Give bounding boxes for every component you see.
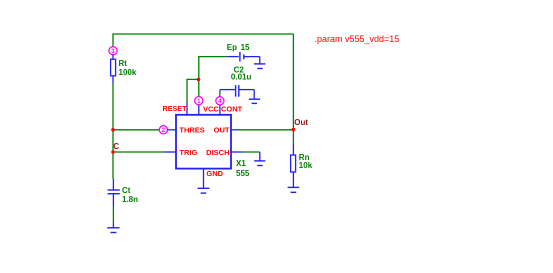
label C2 value (231, 66, 252, 82)
svg-text:Ep: Ep (227, 43, 237, 52)
ground for DISCH (254, 152, 265, 166)
junction at THRES/left rail (111, 128, 115, 132)
timer X1 555 body (176, 115, 231, 169)
junction at TRIG/left rail (111, 150, 115, 154)
svg-text:OUT: OUT (214, 126, 230, 135)
svg-text:C: C (113, 142, 119, 151)
label Ct value (122, 186, 138, 204)
label X1 555 (236, 159, 250, 178)
wire CONT up to C2 (219, 90, 221, 97)
ground for Rn (288, 187, 300, 192)
ground for GND pin (198, 188, 210, 193)
svg-text:TRIG: TRIG (179, 148, 197, 157)
wire TRIG horizontal (113, 151, 164, 153)
resistor Rt (111, 55, 116, 83)
node label Out (294, 118, 308, 127)
junction RESET/VCC rail (197, 78, 201, 82)
wire top net from Rt top to Out vertical (113, 33, 293, 35)
pin lead RESET (186, 102, 188, 115)
node label C (113, 142, 119, 151)
node 2 bubble (159, 126, 167, 134)
svg-text:Out: Out (294, 118, 308, 127)
label Ep 15 (227, 43, 250, 52)
pin label TRIG (179, 148, 197, 157)
svg-text:CONT: CONT (221, 105, 243, 114)
wire OUT to Out node (238, 129, 294, 131)
ground for Ep (254, 57, 265, 69)
wire from Ct to ground (112, 207, 114, 223)
svg-text:4: 4 (218, 98, 222, 105)
capacitor Ct (108, 179, 120, 207)
pin lead OUT (231, 129, 238, 131)
pin lead TRIG (164, 151, 176, 153)
svg-text:THRES: THRES (179, 126, 204, 135)
pin label GND (206, 169, 223, 178)
label Rn value (299, 153, 313, 170)
svg-text:0.01u: 0.01u (231, 73, 252, 82)
pin lead CONT (219, 105, 221, 115)
svg-text:3: 3 (111, 48, 115, 55)
svg-text:VCC: VCC (203, 105, 219, 114)
wire THRES horizontal (113, 129, 159, 131)
svg-text:555: 555 (236, 169, 250, 178)
wire left vertical from Rt to Ct (112, 83, 114, 179)
pin label VCC (203, 105, 219, 114)
wire VCC rail up to Ep (199, 57, 227, 97)
wire left vertical above node 3 (112, 33, 114, 46)
node 1 bubble (195, 97, 203, 105)
svg-text:Rt: Rt (119, 59, 128, 68)
node 4 bubble (216, 97, 224, 105)
pin label RESET (163, 104, 188, 113)
pin label THRES (179, 126, 204, 135)
svg-text:100k: 100k (119, 68, 137, 77)
ground for C2 (249, 90, 260, 104)
svg-text:DISCH: DISCH (206, 148, 229, 157)
wire Out vertical (292, 34, 294, 144)
pin label OUT (214, 126, 230, 135)
battery Ep (227, 52, 260, 62)
pin label DISCH (206, 148, 229, 157)
ground below Ct (107, 223, 119, 233)
wire DISCH to ground (243, 151, 260, 153)
wire RESET branch to VCC rail (187, 79, 199, 102)
svg-text:RESET: RESET (163, 104, 188, 113)
pin lead GND (203, 169, 205, 189)
svg-text:15: 15 (241, 43, 250, 52)
svg-text:1: 1 (197, 98, 201, 105)
capacitor C2 (220, 85, 254, 97)
directive .param text (315, 34, 400, 44)
pin lead DISCH (231, 151, 243, 153)
label Rt value (119, 59, 137, 77)
svg-text:Ct: Ct (122, 186, 131, 195)
pin lead THRES (167, 129, 176, 131)
node 3 bubble (109, 47, 117, 55)
resistor Rn (291, 144, 296, 188)
svg-text:1.8n: 1.8n (122, 195, 138, 204)
svg-text:X1: X1 (236, 159, 246, 168)
svg-text:10k: 10k (299, 161, 313, 170)
pin lead VCC (198, 105, 200, 115)
svg-text:2: 2 (162, 127, 166, 134)
pin label CONT (221, 105, 243, 114)
svg-text:.param v555_vdd=15: .param v555_vdd=15 (315, 34, 400, 44)
svg-text:GND: GND (206, 169, 223, 178)
junction Out (292, 128, 296, 132)
